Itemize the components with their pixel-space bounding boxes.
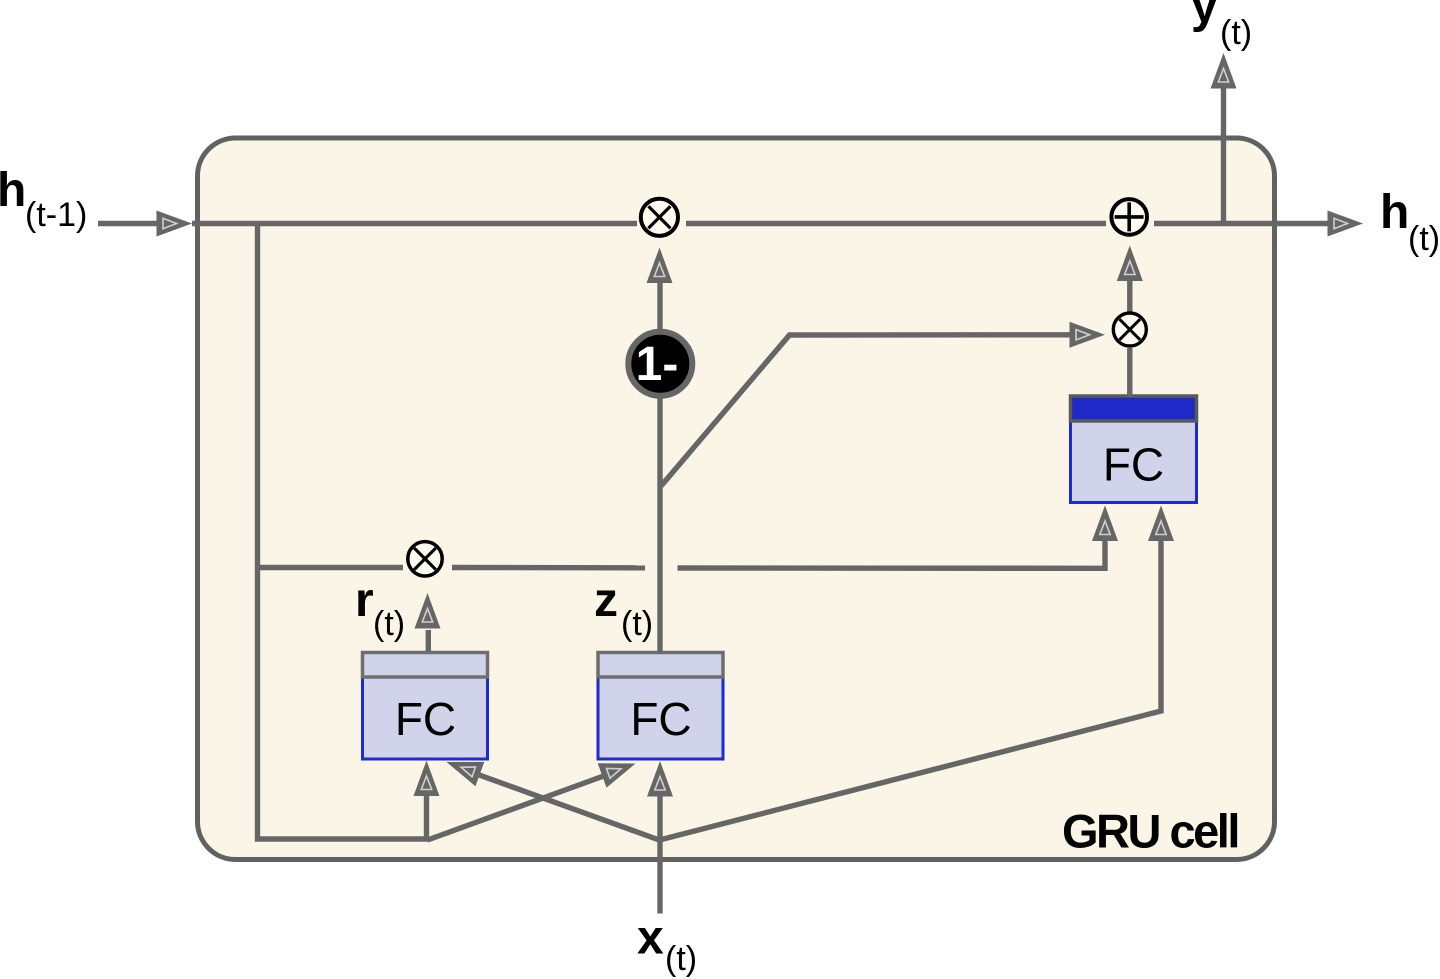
svg-text:x: x bbox=[637, 912, 664, 965]
wire h branch up into FC r bbox=[424, 794, 429, 841]
wire y(t) branch bbox=[1221, 87, 1226, 225]
FC box g (right): body bbox=[1071, 421, 1197, 503]
arrowhead into FC r from x bbox=[442, 750, 484, 787]
svg-text:1-: 1- bbox=[636, 338, 679, 391]
svg-text:FC: FC bbox=[395, 693, 456, 745]
svg-text:(t): (t) bbox=[1220, 14, 1252, 52]
wire reset row left segment bbox=[258, 565, 404, 570]
wire x(t) input stem bbox=[657, 838, 662, 914]
1- complement node bbox=[628, 332, 692, 396]
arrowhead into FC r from h branch bbox=[414, 761, 440, 797]
svg-text:(t): (t) bbox=[665, 940, 697, 978]
wire top state line left of multiply bbox=[192, 221, 637, 226]
svg-text:h: h bbox=[1380, 186, 1409, 239]
wire x branch diagonal to FC r bbox=[464, 770, 661, 841]
svg-text:r: r bbox=[355, 574, 374, 627]
wire z vertical through 1- node bbox=[657, 281, 662, 653]
svg-text:(t-1): (t-1) bbox=[25, 196, 87, 234]
wire top state line right of add bbox=[1154, 221, 1331, 226]
wire x branch long diagonal to FC g bbox=[660, 537, 1162, 840]
wire x branch up into FC z bbox=[657, 794, 662, 842]
arrowhead into add node bbox=[1117, 246, 1143, 282]
svg-text:z: z bbox=[594, 574, 618, 627]
FC box z: header bbox=[598, 653, 723, 678]
arrowhead into top multiply from z bbox=[647, 248, 673, 284]
label h(t-1) bbox=[0, 164, 87, 234]
arrowhead into FC z from h branch bbox=[598, 751, 640, 787]
svg-text:(t): (t) bbox=[1408, 220, 1440, 258]
wire h branch diagonal to FC z bbox=[428, 770, 622, 841]
multiply node reset gate bbox=[408, 542, 442, 576]
wire h(t-1) input bbox=[98, 221, 160, 226]
arrowhead r(t) output bbox=[415, 593, 441, 629]
svg-text:FC: FC bbox=[630, 693, 691, 745]
multiply node on state line bbox=[641, 199, 678, 236]
wire reset row right segment and turn up bbox=[678, 537, 1106, 568]
svg-text:GRU cell: GRU cell bbox=[1062, 805, 1238, 858]
FC box r: header bbox=[363, 653, 488, 678]
arrowhead h(t) output bbox=[1328, 211, 1364, 237]
multiply node update gate right bbox=[1113, 313, 1146, 346]
svg-text:(t): (t) bbox=[621, 605, 653, 643]
wire right multiply to add bbox=[1127, 280, 1132, 312]
arrowhead into FC g from reset multiply bbox=[1092, 506, 1118, 542]
label z(t) bbox=[594, 574, 653, 643]
arrowhead y(t) output bbox=[1211, 53, 1237, 89]
wire right multiply down to FC g bbox=[1127, 348, 1132, 397]
wire top state line between multiply and add bbox=[686, 221, 1106, 226]
GRU cell container box bbox=[198, 138, 1275, 860]
add node on state line bbox=[1111, 199, 1147, 235]
arrowhead into right multiply bbox=[1070, 322, 1106, 348]
arrowhead into FC g from x bbox=[1148, 506, 1174, 542]
svg-text:h: h bbox=[0, 164, 26, 217]
wire reset row middle segment bbox=[452, 565, 645, 571]
label r(t) bbox=[355, 574, 405, 643]
arrowhead h(t-1) into cell bbox=[157, 211, 193, 237]
wire h(t-1) branch down and across bbox=[258, 221, 429, 839]
FC box g (right): header bbox=[1071, 396, 1197, 421]
svg-text:y: y bbox=[1191, 0, 1218, 33]
wire z branch diagonal and across to right multiply bbox=[661, 335, 1073, 486]
arrowhead into FC z from x bbox=[647, 761, 673, 797]
label y(t) bbox=[1191, 0, 1252, 52]
svg-text:(t): (t) bbox=[373, 605, 405, 643]
FC box r: body bbox=[363, 676, 488, 759]
FC box z: body bbox=[598, 676, 723, 759]
svg-text:FC: FC bbox=[1103, 439, 1164, 491]
wire r(t) output stem bbox=[426, 630, 431, 652]
label x(t) bbox=[637, 912, 697, 979]
label h(t) bbox=[1380, 186, 1440, 258]
